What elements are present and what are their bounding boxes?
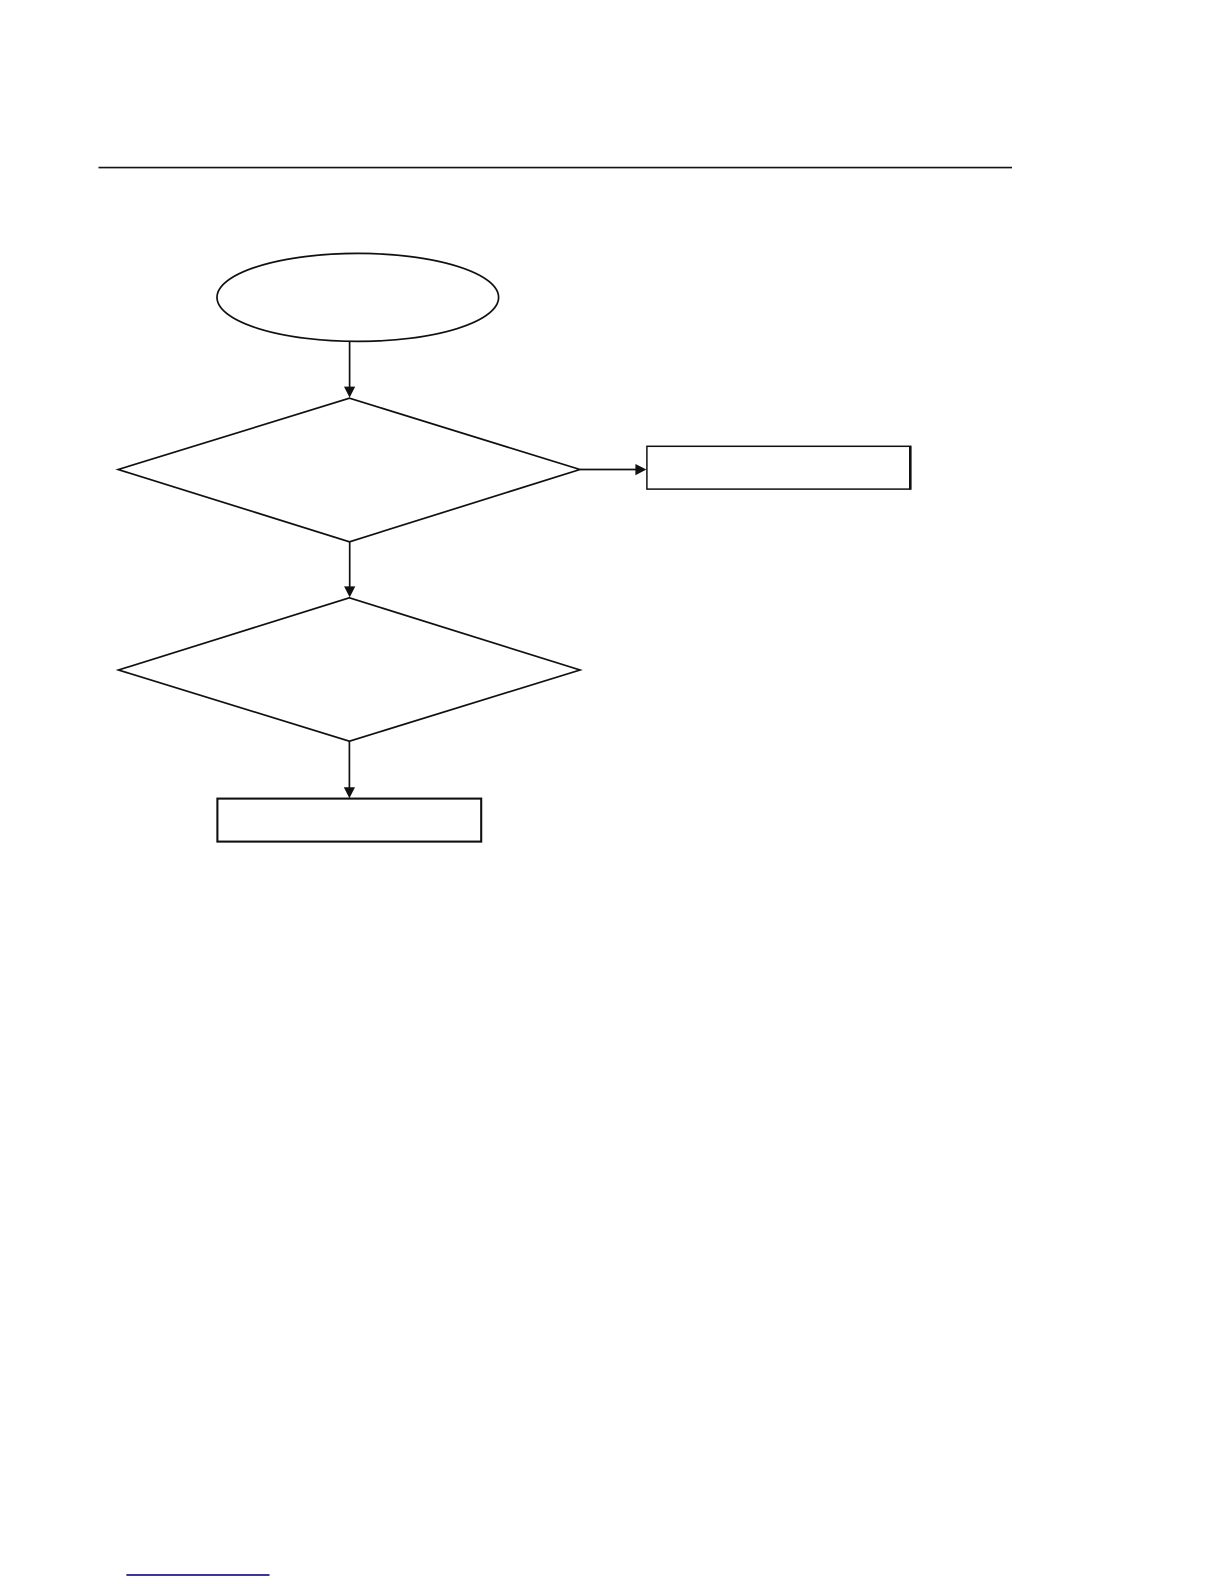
wire diamond D2 to process box P2 (348, 741, 350, 788)
wire ellipse to diamond D1 (349, 341, 351, 387)
header rule (99, 167, 1013, 169)
decision diamond D2 (119, 598, 581, 741)
footer hyperlink underline (126, 1574, 269, 1576)
start terminator ellipse (217, 253, 499, 341)
arrowhead into diamond D1 (344, 387, 355, 398)
wire diamond D1 to diamond D2 (349, 542, 351, 587)
arrowhead into diamond D2 (344, 586, 355, 597)
process box P1 thick right edge (909, 446, 912, 490)
decision diamond D1 (118, 398, 580, 542)
process box P1 (647, 446, 911, 489)
arrowhead into process box P2 (344, 787, 355, 798)
wire diamond D1 to process box P1 (580, 469, 636, 471)
arrowhead into process box P1 (635, 464, 646, 475)
process box P2 (217, 799, 481, 842)
